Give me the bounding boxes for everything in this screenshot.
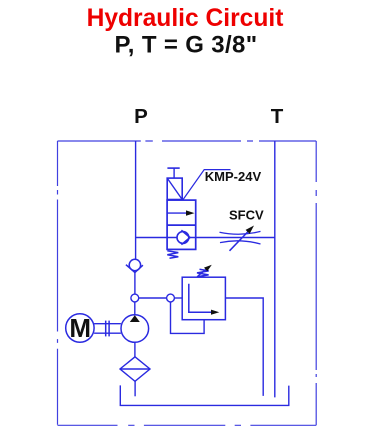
- solenoid valve U1 main body: [167, 200, 196, 249]
- valve check (closed position): [167, 230, 196, 244]
- valve arrow (open position): [168, 210, 195, 215]
- solenoid pin: [167, 168, 179, 178]
- enclosure border left (chain line): [57, 141, 59, 425]
- wire: valve to T flow line: [196, 237, 275, 239]
- wire: J1 to pump: [134, 302, 136, 315]
- svg-text:M: M: [69, 313, 91, 343]
- relief valve adjustable spring: [197, 265, 212, 277]
- wire: J1 to J2: [139, 297, 167, 299]
- wire: pump suction to filter: [134, 342, 136, 357]
- wire: J2 to relief valve inlet: [174, 297, 182, 299]
- node J1: [131, 294, 139, 302]
- node J2: [167, 294, 175, 302]
- enclosure border right (chain line): [315, 141, 317, 425]
- relief valve internal arrow: [189, 284, 220, 315]
- leader line to KMP-24V: [183, 170, 230, 200]
- svg-text:T: T: [271, 105, 284, 128]
- wire: T riser into tank: [274, 141, 276, 397]
- enclosure border top (chain line): [58, 140, 317, 142]
- wire: filter to tank: [134, 381, 136, 396]
- wire: relief outlet to tank: [225, 298, 263, 396]
- flow control valve SFCV symbol: [220, 226, 261, 251]
- wire: P to valve flow line: [136, 237, 168, 239]
- svg-text:KMP-24V: KMP-24V: [205, 169, 262, 184]
- tank: [120, 385, 288, 405]
- motor M1: [66, 313, 94, 343]
- wire: relief drain loop: [171, 302, 205, 334]
- shaft lines: [94, 324, 121, 334]
- pump P1: [121, 315, 149, 343]
- check valve on P line: [126, 259, 143, 272]
- relief valve body: [182, 277, 225, 320]
- wire: P riser: [135, 141, 137, 259]
- svg-text:P: P: [134, 105, 148, 128]
- wire: check valve to junction: [134, 273, 136, 295]
- svg-text:SFCV: SFCV: [229, 207, 264, 222]
- svg-text:P, T = G 3/8": P, T = G 3/8": [115, 31, 258, 58]
- solenoid actuator box: [167, 178, 182, 199]
- svg-text:Hydraulic Circuit: Hydraulic Circuit: [87, 5, 284, 32]
- filter F1: [120, 357, 150, 382]
- valve return spring: [167, 251, 178, 258]
- coupling ticks: [106, 321, 109, 337]
- enclosure border bottom (chain line): [58, 424, 317, 426]
